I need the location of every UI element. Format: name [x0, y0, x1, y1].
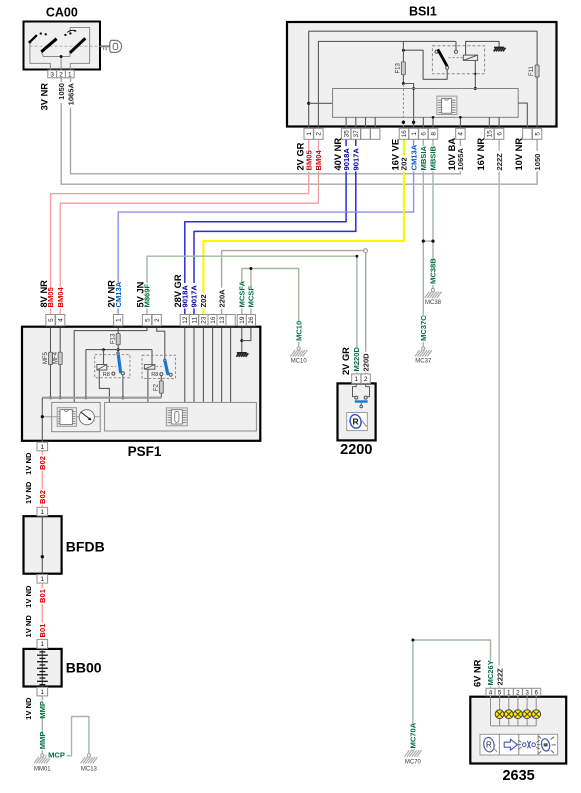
svg-text:F2: F2 [154, 383, 160, 391]
svg-text:220A: 220A [217, 289, 226, 308]
svg-text:MC10: MC10 [291, 359, 308, 365]
svg-text:6: 6 [421, 132, 428, 136]
svg-text:12: 12 [182, 316, 189, 324]
svg-text:R: R [486, 741, 492, 750]
svg-text:M869F: M869F [143, 284, 152, 308]
svg-text:M220D: M220D [352, 347, 361, 372]
svg-text:B01: B01 [38, 588, 47, 603]
svg-text:10V NR: 10V NR [514, 138, 524, 171]
svg-text:9017A: 9017A [352, 148, 361, 171]
svg-text:1: 1 [354, 376, 358, 383]
svg-text:16: 16 [210, 316, 217, 324]
svg-text:BFDB: BFDB [66, 539, 105, 555]
svg-text:F11: F11 [529, 65, 535, 76]
svg-text:2200: 2200 [340, 442, 372, 458]
svg-text:5: 5 [48, 318, 55, 322]
svg-text:MCSFA: MCSFA [238, 280, 247, 307]
svg-text:222Z: 222Z [495, 668, 504, 686]
svg-text:MF5: MF5 [43, 351, 49, 364]
svg-text:MM01: MM01 [34, 767, 51, 773]
svg-text:MC13: MC13 [81, 767, 98, 773]
svg-text:BB00: BB00 [66, 660, 102, 676]
svg-text:Z02: Z02 [400, 157, 409, 170]
svg-text:MC37: MC37 [415, 359, 432, 365]
svg-text:2635: 2635 [502, 768, 534, 784]
svg-text:6: 6 [496, 132, 503, 136]
svg-text:MCSF: MCSF [247, 286, 256, 308]
svg-text:2: 2 [59, 71, 63, 78]
svg-text:F13: F13 [396, 62, 402, 73]
svg-text:BM05: BM05 [304, 149, 313, 170]
svg-text:MC37C: MC37C [419, 315, 428, 341]
svg-text:3V NR: 3V NR [39, 83, 49, 111]
svg-text:220D: 220D [362, 353, 371, 372]
svg-text:1: 1 [411, 132, 418, 136]
svg-text:23: 23 [201, 316, 208, 324]
svg-text:1V ND: 1V ND [24, 615, 33, 638]
svg-text:9018A: 9018A [181, 285, 190, 308]
svg-text:2: 2 [516, 689, 520, 696]
svg-text:1050: 1050 [57, 83, 66, 100]
svg-text:222Z: 222Z [495, 153, 504, 171]
svg-text:3: 3 [50, 71, 54, 78]
svg-text:1: 1 [40, 689, 44, 696]
svg-text:1V ND: 1V ND [24, 697, 33, 720]
svg-text:11: 11 [191, 316, 198, 323]
svg-text:1: 1 [40, 576, 44, 583]
svg-text:CA00: CA00 [46, 6, 78, 20]
svg-text:1: 1 [40, 509, 44, 516]
svg-text:MC70A: MC70A [409, 722, 418, 748]
svg-text:16: 16 [401, 130, 408, 138]
svg-text:CM13A: CM13A [114, 281, 123, 307]
svg-text:MC38: MC38 [425, 300, 442, 306]
svg-text:1: 1 [40, 444, 44, 451]
svg-text:1065A: 1065A [66, 82, 75, 105]
svg-text:BSI1: BSI1 [409, 5, 437, 19]
svg-text:BM05: BM05 [46, 286, 55, 307]
svg-text:5: 5 [498, 689, 502, 696]
svg-text:1: 1 [507, 689, 511, 696]
svg-text:3: 3 [525, 689, 529, 696]
svg-text:R8: R8 [151, 372, 158, 378]
svg-text:19: 19 [239, 316, 246, 324]
svg-text:MC38B: MC38B [429, 258, 438, 284]
svg-text:R8: R8 [103, 372, 110, 378]
svg-text:9017A: 9017A [190, 285, 199, 308]
svg-text:2: 2 [316, 132, 323, 136]
svg-text:MCP: MCP [48, 751, 65, 760]
svg-text:2V GR: 2V GR [341, 347, 351, 375]
svg-text:26: 26 [248, 316, 255, 324]
svg-text:1: 1 [306, 132, 313, 136]
svg-text:1V ND: 1V ND [24, 585, 33, 608]
svg-text:CM13A: CM13A [409, 144, 418, 170]
svg-text:MMP: MMP [38, 701, 47, 719]
svg-text:4: 4 [458, 132, 465, 136]
svg-text:6V NR: 6V NR [473, 659, 483, 687]
svg-text:35: 35 [343, 130, 350, 138]
svg-text:1V ND: 1V ND [24, 481, 33, 504]
svg-text:1: 1 [116, 318, 123, 322]
svg-text:B01: B01 [38, 623, 47, 638]
svg-text:6: 6 [534, 689, 538, 696]
svg-text:MBSIA: MBSIA [419, 146, 428, 171]
svg-text:R: R [353, 417, 359, 427]
svg-text:BM04: BM04 [56, 286, 65, 307]
svg-text:1065A: 1065A [456, 148, 465, 171]
svg-text:1050: 1050 [533, 154, 542, 171]
svg-text:5: 5 [144, 318, 151, 322]
svg-text:13: 13 [219, 316, 226, 324]
svg-text:MC70: MC70 [405, 760, 422, 766]
svg-text:F13: F13 [110, 333, 116, 344]
svg-text:MC10: MC10 [294, 321, 303, 341]
svg-text:B02: B02 [38, 456, 47, 470]
svg-text:PSF1: PSF1 [128, 444, 162, 459]
svg-text:MF4: MF4 [53, 351, 59, 364]
svg-text:MBSIB: MBSIB [429, 146, 438, 171]
svg-text:1: 1 [40, 641, 44, 648]
svg-text:4: 4 [58, 318, 65, 322]
svg-text:5: 5 [534, 132, 541, 136]
svg-text:4: 4 [489, 689, 493, 696]
svg-text:1: 1 [68, 71, 72, 78]
svg-text:2: 2 [364, 376, 368, 383]
svg-text:MMP: MMP [38, 732, 47, 750]
svg-text:9018A: 9018A [342, 148, 351, 171]
svg-text:Z02: Z02 [199, 294, 208, 307]
svg-text:8: 8 [430, 132, 437, 136]
svg-text:B02: B02 [38, 490, 47, 504]
svg-text:2: 2 [154, 318, 161, 322]
svg-text:37: 37 [353, 130, 360, 138]
svg-text:1V ND: 1V ND [24, 452, 33, 475]
svg-text:15: 15 [487, 130, 494, 138]
svg-text:16V NR: 16V NR [476, 138, 486, 171]
svg-text:BM04: BM04 [314, 149, 323, 170]
svg-text:MC26Y: MC26Y [486, 660, 495, 685]
